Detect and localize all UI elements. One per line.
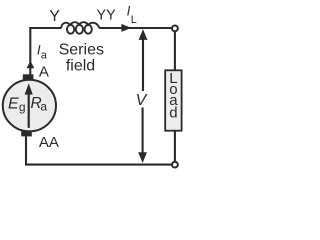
series field inductor L (coil loops) <box>61 22 100 34</box>
current arrow I_L on top wire (points right) <box>121 24 131 32</box>
svg-text:E: E <box>8 95 19 112</box>
node terminal top-right (open circle) <box>172 26 178 32</box>
svg-text:L: L <box>131 14 137 26</box>
wire: right vertical from Load down to bottom-right node <box>174 131 176 162</box>
svg-text:d: d <box>169 105 177 122</box>
wire: top-left vertical from armature A terminal up to corner, then right to series field <box>30 28 61 75</box>
brush terminal A (black block, top) <box>23 74 34 79</box>
wire: right vertical from top node down to Load <box>174 32 176 71</box>
svg-text:g: g <box>19 100 26 114</box>
svg-text:field: field <box>66 57 95 74</box>
svg-text:a: a <box>41 49 48 61</box>
brush terminal AA (black block, bottom) <box>21 131 32 136</box>
svg-text:Series: Series <box>59 42 104 59</box>
voltage arrow V (double-headed vertical) <box>142 39 144 91</box>
svg-text:Y: Y <box>49 8 60 25</box>
node terminal bottom-right (open circle) <box>172 162 178 168</box>
Load box <box>165 70 181 130</box>
svg-text:YY: YY <box>96 8 116 24</box>
svg-text:V: V <box>136 92 148 109</box>
svg-text:A: A <box>39 63 49 80</box>
wire: bottom horizontal and left vertical up to AA terminal <box>26 136 172 164</box>
generator armature circle <box>3 80 56 132</box>
svg-text:AA: AA <box>39 134 59 151</box>
svg-text:a: a <box>40 100 47 114</box>
current arrow I_a on left wire (points up) <box>27 61 35 68</box>
armature internal EMF arrow (points up) <box>28 94 30 128</box>
wire: top horizontal from series field to top-right node <box>99 27 171 29</box>
